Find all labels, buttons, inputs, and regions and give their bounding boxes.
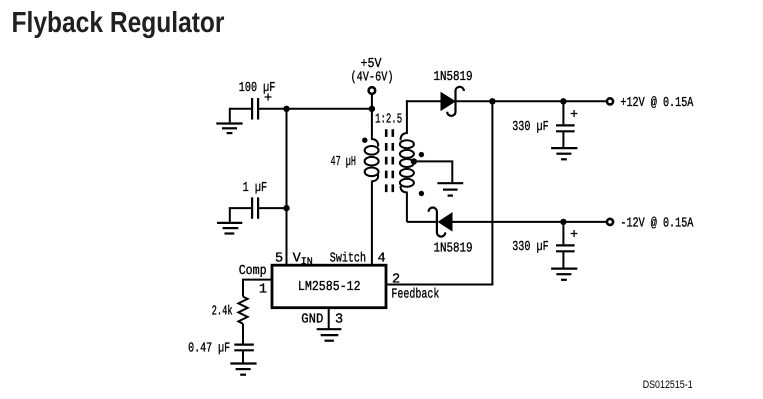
wire C2 to VIN branch — [259, 207, 287, 209]
node +5V input terminal — [369, 87, 376, 94]
svg-text:1: 1 — [259, 283, 267, 298]
svg-text:5: 5 — [275, 252, 283, 267]
svg-text:Switch: Switch — [330, 252, 366, 267]
node +12V output terminal — [607, 98, 613, 104]
capacitor C5 0.47uF plates — [234, 345, 254, 351]
svg-text:47 µH: 47 µH — [331, 155, 357, 170]
svg-text:0.47 µF: 0.47 µF — [188, 342, 230, 357]
ground G6 (under C5) — [230, 364, 256, 375]
svg-text:GND: GND — [301, 313, 323, 328]
wire rail C secondary bottom to D2 — [407, 221, 437, 223]
svg-text:+: + — [570, 228, 578, 243]
capacitor C2 1uF left lead — [230, 208, 251, 222]
junction rail B / C3 — [560, 98, 566, 104]
resistor R1 2.4k — [238, 297, 247, 324]
svg-text:+12V @ 0.15A: +12V @ 0.15A — [620, 96, 694, 111]
svg-text:Comp: Comp — [239, 264, 267, 279]
svg-text:1:2.5: 1:2.5 — [375, 113, 402, 128]
svg-text:1N5819: 1N5819 — [434, 241, 473, 256]
capacitor C3 bottom lead — [562, 132, 564, 147]
transformer T1 secondary winding — [400, 100, 414, 222]
T1 secondary phase dot lower — [419, 191, 424, 196]
svg-text:1 µF: 1 µF — [243, 181, 268, 196]
wire C5 to ground — [242, 351, 244, 363]
wire rail C D2 to -12V terminal — [452, 221, 607, 223]
capacitor C3 330uF plates — [556, 125, 575, 131]
junction rail A / VIN branch — [283, 106, 289, 112]
svg-text:2.4k: 2.4k — [212, 304, 233, 319]
svg-text:+: + — [264, 92, 272, 107]
capacitor C3 330uF top lead — [562, 101, 564, 124]
svg-text:330 µF: 330 µF — [512, 240, 549, 255]
capacitor C1 100uF plates — [252, 98, 258, 120]
capacitor C4 330uF top lead — [562, 222, 564, 245]
op-amp U1 LM2585-12 box — [272, 265, 386, 308]
wire +5V terminal to rail A — [371, 94, 373, 109]
ground G5 (under C4) — [551, 269, 577, 280]
T1 primary phase dot — [362, 138, 367, 143]
svg-text:1N5819: 1N5819 — [434, 70, 473, 85]
T1 secondary phase dot upper — [419, 152, 424, 157]
wire feedback net (J3 down to pin 2) — [386, 101, 492, 284]
svg-text:+: + — [570, 108, 578, 123]
junction rail B / feedback — [489, 98, 495, 104]
ground G4 (under C3) — [551, 148, 577, 159]
capacitor C4 bottom lead — [562, 252, 564, 268]
capacitor C4 330uF plates — [556, 245, 575, 251]
svg-text:Feedback: Feedback — [391, 288, 439, 303]
svg-text:DS012515-1: DS012515-1 — [643, 379, 693, 391]
svg-text:4: 4 — [378, 252, 386, 267]
capacitor C1 100uF left lead — [230, 109, 251, 123]
transformer T1 primary winding — [365, 109, 379, 266]
wire R1 to C5 — [242, 324, 244, 344]
svg-text:(4V-6V): (4V-6V) — [351, 71, 394, 86]
diode D2 1N5819 (to -12V) — [429, 208, 453, 237]
wire VIN branch (rail A to pin 5) — [286, 109, 288, 266]
wire pin 3 GND lead — [328, 308, 330, 329]
capacitor C2 1uF plates — [252, 197, 258, 218]
svg-text:2: 2 — [392, 273, 400, 288]
junction rail C / C4 — [560, 219, 566, 225]
T1 core dashed lines — [386, 129, 393, 192]
diode D1 1N5819 (to +12V) — [441, 87, 464, 116]
junction secondary center tap — [411, 158, 417, 164]
ground G1 (under C1) — [216, 124, 242, 134]
svg-text:-12V @ 0.15A: -12V @ 0.15A — [620, 216, 694, 231]
node -12V output terminal — [607, 219, 613, 225]
ground G7 (IC GND pin) — [317, 329, 342, 341]
svg-text:LM2585-12: LM2585-12 — [298, 280, 361, 295]
wire pin 1 Comp lead — [243, 280, 272, 297]
ground G3 (center tap) — [437, 183, 463, 195]
junction VIN branch / C2 — [283, 205, 289, 211]
svg-text:330 µF: 330 µF — [512, 120, 549, 135]
wire rail B D1 to +12V terminal — [456, 100, 607, 102]
wire rail A (input rail) — [259, 108, 373, 110]
ground G2 (under C2) — [217, 223, 242, 234]
wire center tap to ground — [413, 161, 452, 182]
svg-text:3: 3 — [335, 313, 343, 328]
junction +5V rail / primary — [369, 106, 375, 112]
wire rail B secondary top to D1 — [406, 100, 442, 102]
svg-text:Flyback Regulator: Flyback Regulator — [12, 7, 225, 39]
